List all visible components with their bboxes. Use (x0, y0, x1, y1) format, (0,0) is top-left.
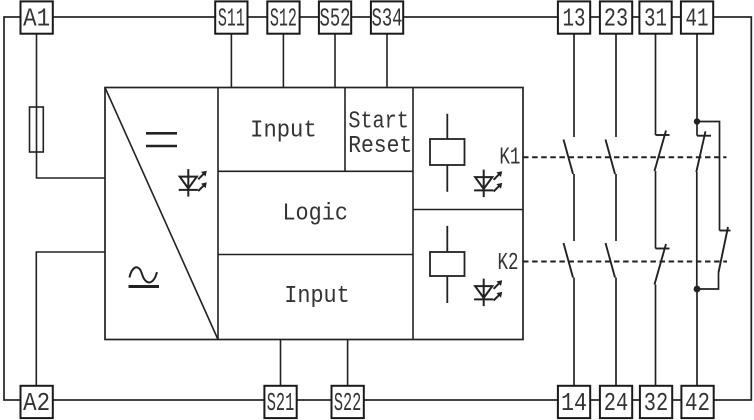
wire 23 down (615, 34, 617, 137)
wire to 24 (615, 278, 617, 386)
wire bypass bottom (697, 273, 719, 290)
wire 31-32 middle (655, 171, 657, 249)
terminal 23 (600, 1, 632, 33)
contact K2 NC blade (31-32) (655, 244, 667, 285)
contact K1 NC crossbar (31-32) (656, 134, 670, 136)
fuse F1 (30, 107, 44, 152)
wire 13-14 middle (573, 174, 575, 241)
wire S34 to block (386, 34, 388, 88)
power section divider (217, 88, 219, 340)
svg-text:Reset: Reset (348, 133, 412, 160)
wire A2 to power section (36, 252, 105, 386)
contact K1 NO blade (13-14) (564, 140, 574, 175)
terminal 13 (558, 1, 590, 33)
node junction bottom (42) (694, 286, 701, 293)
wire to 42 (696, 289, 698, 386)
svg-text:31: 31 (644, 4, 667, 34)
main block U1 (105, 88, 523, 340)
divider under Input/StartReset (218, 170, 413, 172)
svg-text:S11: S11 (218, 4, 245, 34)
svg-text:K1: K1 (499, 145, 520, 172)
svg-text:K2: K2 (498, 250, 519, 277)
LED K2 (474, 279, 502, 307)
terminal S11 (215, 1, 247, 33)
svg-text:Input: Input (250, 118, 317, 145)
divider Input/StartReset (344, 88, 346, 172)
svg-text:41: 41 (686, 4, 709, 34)
divider middle/relay (412, 88, 414, 340)
terminal A1 (21, 1, 53, 33)
wire A1 to fuse (36, 34, 38, 152)
terminal A2 (21, 386, 53, 418)
svg-text:A2: A2 (23, 388, 50, 418)
wire block to S21 (280, 340, 282, 386)
LED power (179, 169, 207, 197)
terminal 24 (600, 386, 632, 418)
wire to 32 (655, 285, 657, 386)
svg-text:13: 13 (563, 4, 586, 34)
svg-text:S12: S12 (270, 4, 297, 34)
svg-text:Start: Start (348, 109, 409, 136)
wire 23-24 middle (615, 174, 617, 241)
wire S11 to block (230, 34, 232, 88)
contact K2 NC blade (41-42 bypass) (719, 227, 729, 273)
terminal 41 (681, 1, 713, 33)
terminal S12 (267, 1, 299, 33)
svg-text:24: 24 (604, 388, 629, 418)
svg-text:14: 14 (561, 388, 587, 418)
terminal 42 (681, 386, 713, 418)
wire 41-42 left path (696, 172, 698, 289)
wire bypass top (697, 122, 720, 231)
terminal 32 (640, 386, 672, 418)
wire block to S22 (347, 340, 349, 386)
svg-text:S52: S52 (320, 4, 351, 34)
relay K2 coil (430, 226, 465, 303)
terminal S52 (319, 1, 351, 33)
svg-text:A1: A1 (23, 4, 50, 34)
AC symbol (129, 267, 160, 286)
terminal 14 (558, 386, 590, 418)
contact K1 NC blade (41-42) (696, 131, 705, 172)
svg-text:S21: S21 (267, 388, 295, 418)
contact K1 NC crossbar (41-42) (697, 135, 711, 137)
terminal 31 (639, 1, 671, 33)
wire 31 down (655, 34, 657, 135)
wire 13 down (573, 34, 575, 137)
svg-text:42: 42 (685, 388, 710, 418)
terminal S34 (371, 1, 403, 33)
svg-text:S34: S34 (372, 4, 403, 34)
contact K1 NC blade (31-32) (655, 131, 667, 172)
terminal S21 (264, 386, 296, 418)
svg-text:Input: Input (284, 283, 350, 310)
wire 41 down (696, 34, 698, 136)
LED K1 (474, 170, 502, 198)
divider under Logic (218, 254, 413, 256)
svg-text:23: 23 (604, 4, 629, 34)
K2 dashed actuation line (523, 261, 727, 263)
wire S12 to block (282, 34, 284, 88)
relay K1 coil (430, 114, 465, 192)
svg-text:32: 32 (644, 388, 669, 418)
contact K2 NO blade (23-24) (606, 243, 616, 278)
terminal S22 (332, 386, 364, 418)
wire S52 to block (334, 34, 336, 88)
contact K2 NC crossbar (41-42 bypass) (720, 230, 731, 232)
K1 dashed actuation line (523, 156, 727, 158)
wire fuse to power section (37, 152, 106, 178)
node junction top (41) (694, 118, 700, 124)
svg-text:Logic: Logic (282, 201, 348, 228)
power supply diagonal (105, 88, 218, 340)
divider K1/K2 (413, 209, 523, 211)
wire to 14 (573, 278, 575, 386)
svg-text:S22: S22 (334, 388, 362, 418)
contact K2 NC crossbar (31-32) (656, 248, 670, 250)
contact K1 NO blade (23-24) (606, 140, 616, 175)
contact K2 NO blade (13-14) (564, 243, 574, 278)
DC symbol (146, 133, 177, 146)
